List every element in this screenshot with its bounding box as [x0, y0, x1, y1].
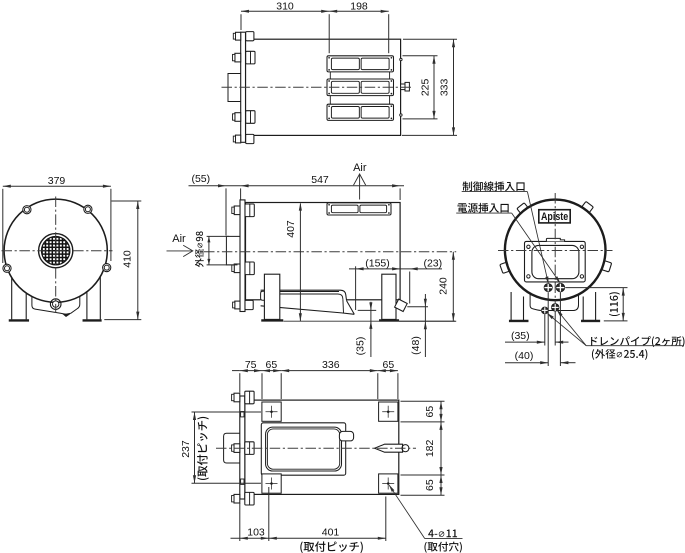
dimension 237: [194, 412, 196, 483]
svg-text:198: 198: [350, 0, 368, 12]
bottom view mounting pad bottom-left: [262, 474, 281, 493]
bottom view mounting flange plate: [240, 396, 245, 499]
label 4-dia11 mounting holes: [428, 529, 457, 537]
front view right foot: [83, 320, 102, 322]
dimension (35) extension line top: [358, 309, 377, 311]
leaders to drain pipes: [557, 310, 586, 346]
top view flange bolt 1: [246, 32, 254, 41]
top view rear screw top: [400, 58, 402, 60]
dimension 240 extension line bottom: [399, 320, 456, 322]
svg-text:240: 240: [437, 277, 449, 295]
front view left foot: [9, 320, 29, 322]
bottom view mounting pad top-left: [262, 402, 281, 421]
side view mounting flange plate: [240, 200, 245, 312]
front view left leg: [11, 277, 13, 319]
label outer-diameter phi-98 (vertical): [195, 231, 204, 267]
rear view right leg: [582, 297, 584, 321]
dimension 225: [433, 56, 435, 119]
label control-line inlet: [463, 181, 525, 191]
svg-text:65: 65: [424, 479, 436, 491]
top view mounting flange plate: [241, 32, 246, 142]
mounting hole cross bottom-left: [266, 483, 278, 485]
svg-text:65: 65: [424, 406, 436, 418]
top view inlet hub: [228, 74, 241, 102]
dimension 333: [453, 39, 455, 135]
dimension 240: [452, 252, 454, 321]
rear view panel screw bottom-right: [580, 275, 583, 278]
air inlet arrow: [167, 250, 193, 252]
side view body: [246, 203, 401, 300]
svg-text:237: 237: [180, 440, 192, 458]
bottom view centre line: [216, 447, 416, 449]
dimension (55): [189, 185, 241, 187]
front view drain pan: [32, 289, 80, 315]
bottom view mounting pad top-right: [379, 402, 398, 421]
svg-text:333: 333: [439, 78, 451, 96]
bottom view duct opening inner: [267, 429, 339, 469]
leader to power port: [512, 213, 560, 283]
label mounting pitch (vertical): [197, 417, 209, 480]
side view drain pipe bracket: [261, 291, 265, 300]
rear view terminal panel: [525, 241, 586, 282]
rear view horizontal centre line: [498, 250, 613, 252]
bottom view flange tick 2: [241, 479, 244, 484]
label power inlet: [458, 203, 509, 213]
top view rear screw bottom: [400, 114, 402, 116]
rear view housing circle: [505, 200, 606, 301]
dimension 310: [241, 10, 329, 12]
rear view left leg: [510, 292, 512, 320]
bottom view mounting pad bottom-right: [379, 474, 398, 493]
top view flange bolt 2: [246, 51, 255, 64]
top view vent connector bars: [329, 72, 331, 104]
dimension (155): [349, 268, 400, 270]
bottom view duct opening outer: [261, 423, 345, 475]
leader to control port: [527, 192, 548, 284]
rear view left foot: [509, 320, 528, 322]
dimension 103: [231, 537, 269, 539]
svg-text:225: 225: [419, 78, 431, 96]
label drain pipes: [591, 336, 685, 347]
dimension (48): [424, 294, 426, 357]
svg-text:(23): (23): [423, 257, 442, 269]
dimension (23) extension line: [409, 272, 411, 304]
side view drain pipe outlet: [345, 298, 347, 301]
rear view lug right: [600, 260, 611, 272]
dimension (48) extension line top: [407, 306, 428, 308]
rear view panel screw bottom-left: [527, 275, 530, 278]
side view flange bolt 1: [245, 204, 254, 217]
bottom view flange tick 1: [241, 412, 244, 417]
dimension phi-98 height: [208, 236, 210, 265]
svg-text:407: 407: [285, 220, 297, 238]
front view grille mesh: [41, 236, 71, 266]
front view housing circle: [4, 199, 107, 302]
dimension 333 extension lines: [403, 38, 457, 40]
svg-text:103: 103: [247, 527, 265, 539]
bottom view duct opening mid: [266, 427, 342, 471]
bottom pitch extension lines: [239, 503, 241, 541]
dimension 547 extension line right: [399, 188, 401, 200]
dimension (23): [400, 268, 442, 270]
bottom view body: [245, 400, 399, 494]
dimension (116): [622, 288, 624, 321]
side view rear drain pipe: [395, 299, 408, 311]
label drain pipe outer diameter: [592, 349, 647, 360]
dimension 65 right-top: [440, 401, 442, 422]
svg-text:401: 401: [322, 527, 340, 539]
dimension 65 top-right: [378, 370, 398, 372]
side view front foot: [262, 320, 284, 322]
top view body: [246, 39, 401, 135]
dimension (40): [505, 362, 548, 364]
rear view lug top-right: [581, 201, 594, 214]
dimension (55) extension lines: [225, 188, 227, 235]
rear view lug left: [500, 262, 512, 274]
rear view panel screw top-right: [580, 245, 583, 248]
dimension (35) rear: [505, 341, 545, 343]
svg-text:379: 379: [48, 175, 66, 187]
svg-text:65: 65: [266, 359, 278, 371]
front view grille outer ring: [39, 234, 73, 268]
dimension 225 extension lines: [403, 55, 438, 57]
front view horizontal centre line: [2, 250, 113, 252]
dimension 379 extension lines: [2, 189, 4, 263]
svg-text:(48): (48): [410, 336, 422, 355]
rear view lug top-left: [517, 203, 530, 216]
drain pipe 2: [552, 304, 559, 311]
label mounting pitch (bottom): [300, 541, 363, 553]
dimension 198: [329, 10, 389, 12]
dimension 401: [269, 537, 386, 539]
top view vent row 3: [327, 104, 394, 120]
rear view panel screw top-left: [527, 245, 530, 248]
dimension 407: [299, 204, 301, 322]
svg-text:Apiste: Apiste: [541, 211, 568, 223]
side view drain pipe bottom contour: [261, 306, 342, 313]
mounting hole cross bottom-right: [382, 483, 394, 485]
top view vent row 1: [327, 56, 394, 72]
bottom view drain bullet: [375, 444, 403, 452]
side view flange bolt 3: [245, 300, 253, 309]
svg-text:75: 75: [245, 359, 257, 371]
dimension 547: [241, 185, 404, 187]
side view rear foot: [379, 320, 399, 322]
dimension (155) extension line: [355, 266, 357, 310]
dimension phi-98 extension lines: [207, 235, 229, 237]
side view inlet hub: [226, 236, 240, 265]
drain pipe 1: [542, 307, 549, 314]
bottom view latch tab: [339, 431, 353, 441]
power inlet port: [544, 284, 552, 292]
dimension 182: [440, 422, 442, 475]
svg-text:(55): (55): [191, 173, 210, 185]
dimension 237 extension lines: [192, 411, 262, 413]
dimension (116) extension lines: [565, 287, 627, 289]
dimension 65 right-bottom: [440, 475, 442, 495]
dimension 336: [281, 370, 378, 372]
svg-text:182: 182: [424, 439, 436, 457]
rear view right foot: [581, 320, 600, 322]
rear view terminal panel inner cover: [532, 245, 579, 278]
mounting hole cross top-left: [266, 411, 278, 413]
svg-text:(155): (155): [365, 257, 390, 269]
side view flange bolt 2: [245, 262, 254, 275]
dimension 310 extension lines: [240, 14, 242, 30]
dimension 410: [137, 201, 139, 320]
top view shaft stub: [401, 84, 405, 90]
leader to mounting hole: [389, 485, 425, 538]
dimension 410 extension lines: [112, 200, 142, 202]
bottom view flange bolt 1: [245, 391, 254, 404]
rear view drain pan: [530, 292, 578, 311]
front view vertical centre line: [55, 197, 57, 313]
svg-text:65: 65: [383, 359, 395, 371]
control line inlet port: [556, 283, 564, 291]
svg-text:336: 336: [322, 359, 340, 371]
front view rim bolt top-right: [84, 205, 92, 213]
svg-text:547: 547: [311, 174, 329, 186]
svg-text:310: 310: [276, 0, 294, 12]
drain extension lines: [544, 314, 546, 345]
top view vent row 2: [327, 79, 394, 96]
bottom view inlet hub: [224, 433, 240, 463]
svg-text:(35): (35): [511, 330, 530, 342]
dimension 379: [3, 185, 111, 187]
dimension 65 top-left: [262, 370, 281, 372]
top view flange bolt 4: [246, 134, 254, 143]
front view rim bolt left: [3, 264, 11, 272]
rear view vertical centre line: [554, 193, 556, 308]
top view centre line: [222, 86, 414, 88]
front view rim bolt top-left: [23, 206, 31, 214]
front view rim bolt right: [103, 264, 111, 272]
svg-text:Air: Air: [172, 233, 186, 245]
right dims extension lines: [401, 400, 445, 402]
rear view terminal panel top bump: [546, 238, 564, 241]
svg-text:(40): (40): [515, 350, 534, 362]
side view top vent: [327, 203, 391, 215]
top view flange bolt 3: [246, 111, 255, 124]
dimension 75: [232, 370, 240, 372]
Apiste logo: [539, 210, 570, 223]
dimension (35) side: [370, 302, 372, 357]
ground line: [284, 320, 456, 322]
mounting hole cross top-right: [382, 411, 394, 413]
side view rear leg: [382, 274, 396, 319]
front view right leg: [86, 292, 88, 320]
side view front leg: [264, 274, 279, 319]
bottom view flange bolt 2: [245, 442, 254, 455]
svg-text:(35): (35): [354, 337, 366, 356]
bottom dims extension lines: [239, 373, 241, 392]
air outlet arrow: [359, 175, 361, 200]
front view pan drain tip: [63, 314, 70, 317]
side view horizontal drain pipe: [261, 290, 355, 314]
bottom view flange bolt 3: [245, 492, 254, 505]
svg-text:Air: Air: [353, 162, 367, 174]
front view drain fitting: [50, 299, 61, 310]
side view centre line: [204, 251, 456, 253]
svg-text:410: 410: [122, 250, 134, 268]
